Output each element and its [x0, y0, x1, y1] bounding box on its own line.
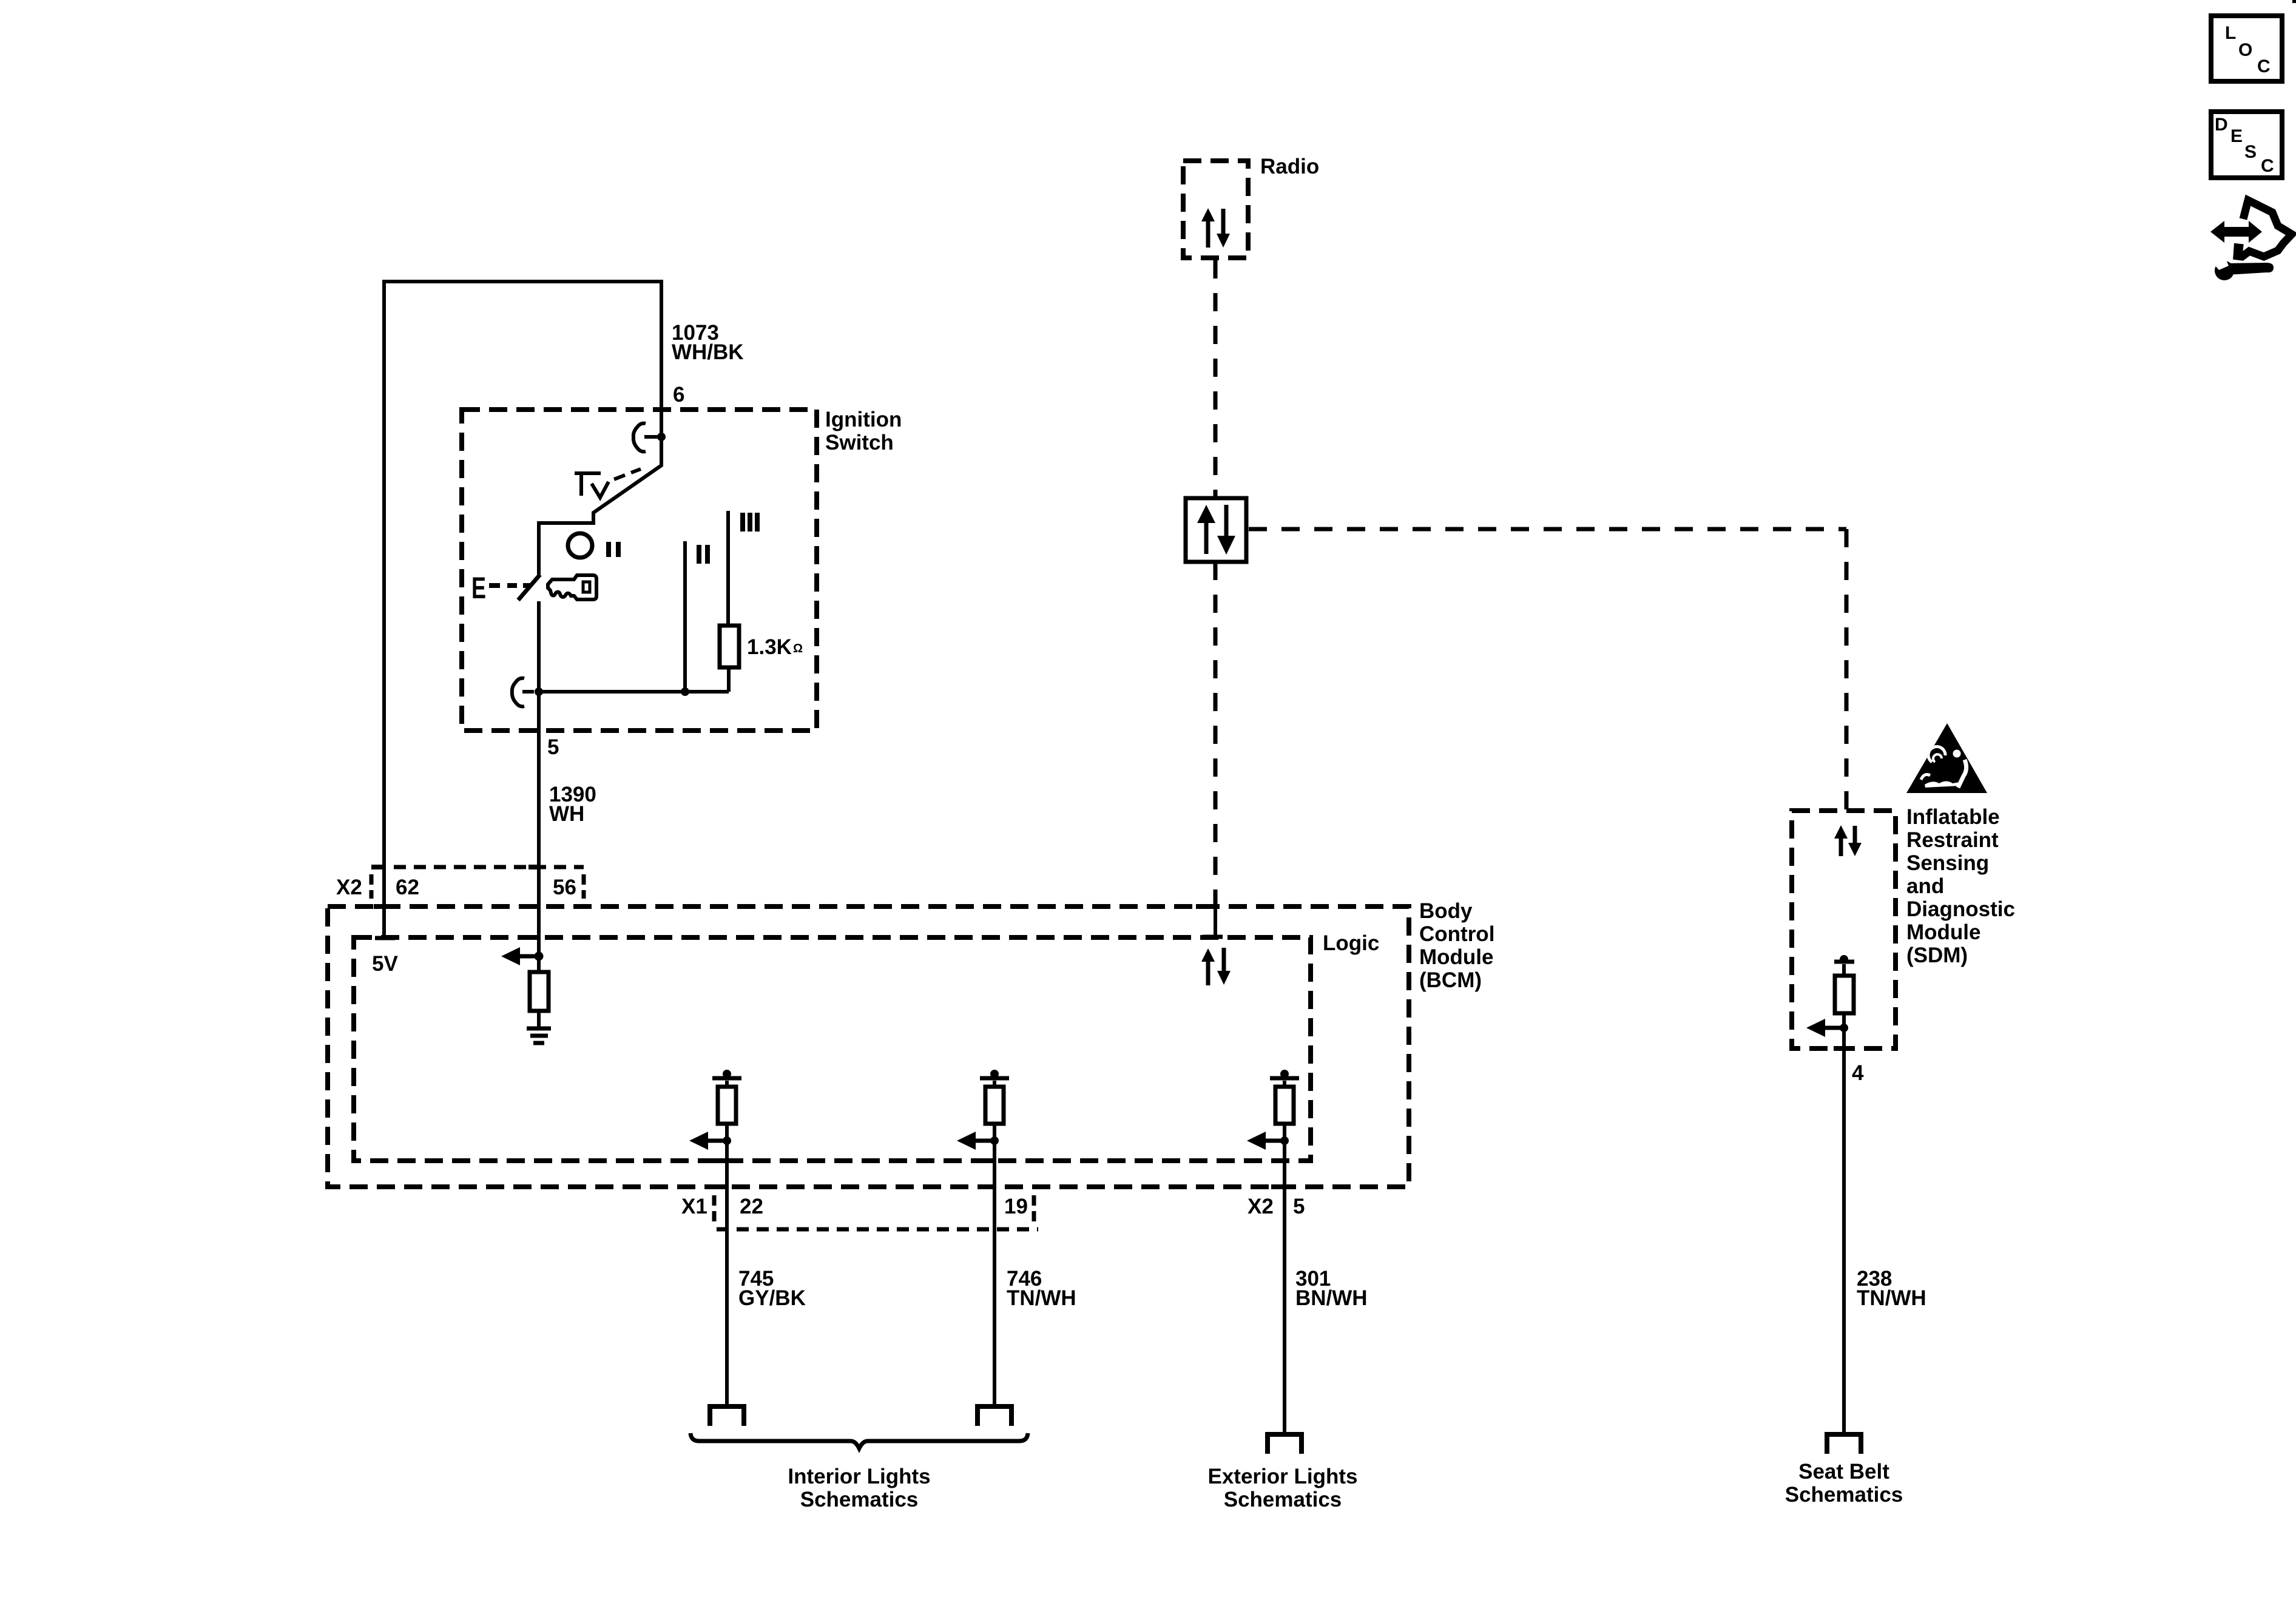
svg-text:1.3K: 1.3K: [747, 635, 792, 659]
svg-text:Exterior Lights: Exterior Lights: [1208, 1465, 1358, 1488]
svg-text:19: 19: [1004, 1195, 1028, 1218]
svg-text:5V: 5V: [372, 952, 398, 976]
svg-text:Ω: Ω: [793, 642, 803, 655]
svg-text:WH: WH: [549, 802, 584, 826]
svg-text:Diagnostic: Diagnostic: [1906, 897, 2015, 921]
svg-text:E: E: [2230, 126, 2243, 146]
svg-text:GY/BK: GY/BK: [738, 1286, 806, 1310]
svg-text:Restraint: Restraint: [1906, 828, 1999, 852]
svg-text:5: 5: [1293, 1195, 1305, 1218]
svg-text:Logic: Logic: [1323, 931, 1379, 955]
svg-text:X2: X2: [336, 876, 362, 899]
svg-text:Module: Module: [1419, 945, 1493, 969]
svg-text:56: 56: [553, 876, 576, 899]
svg-text:Seat Belt: Seat Belt: [1798, 1460, 1889, 1484]
svg-text:TN/WH: TN/WH: [1857, 1286, 1926, 1310]
svg-text:Schematics: Schematics: [1224, 1488, 1342, 1511]
svg-text:WH/BK: WH/BK: [672, 340, 744, 364]
svg-text:Switch: Switch: [825, 431, 894, 454]
svg-text:4: 4: [1852, 1061, 1864, 1085]
svg-text:Body: Body: [1419, 899, 1473, 923]
svg-text:Schematics: Schematics: [1785, 1483, 1903, 1507]
svg-text:TN/WH: TN/WH: [1007, 1286, 1076, 1310]
svg-text:Schematics: Schematics: [800, 1488, 919, 1511]
svg-text:6: 6: [673, 383, 684, 407]
svg-text:5: 5: [547, 735, 559, 759]
svg-text:Radio: Radio: [1260, 155, 1319, 178]
svg-text:Module: Module: [1906, 920, 1980, 944]
svg-text:BN/WH: BN/WH: [1295, 1286, 1368, 1310]
svg-text:C: C: [2261, 156, 2274, 176]
svg-text:O: O: [2238, 40, 2252, 60]
svg-text:(SDM): (SDM): [1906, 944, 1968, 967]
svg-text:and: and: [1906, 874, 1944, 898]
svg-text:L: L: [2225, 23, 2236, 43]
svg-text:Ignition: Ignition: [825, 408, 902, 431]
svg-text:22: 22: [740, 1195, 763, 1218]
svg-text:S: S: [2244, 142, 2257, 162]
svg-text:C: C: [2257, 56, 2271, 76]
svg-text:62: 62: [396, 876, 419, 899]
svg-text:Sensing: Sensing: [1906, 851, 1989, 875]
svg-text:(BCM): (BCM): [1419, 968, 1482, 992]
svg-text:Inflatable: Inflatable: [1906, 805, 2000, 829]
svg-text:Interior Lights: Interior Lights: [788, 1465, 930, 1488]
svg-text:X2: X2: [1248, 1195, 1274, 1218]
svg-text:X1: X1: [681, 1195, 707, 1218]
svg-text:E: E: [471, 571, 486, 605]
svg-text:D: D: [2215, 115, 2228, 135]
svg-text:Control: Control: [1419, 922, 1494, 946]
